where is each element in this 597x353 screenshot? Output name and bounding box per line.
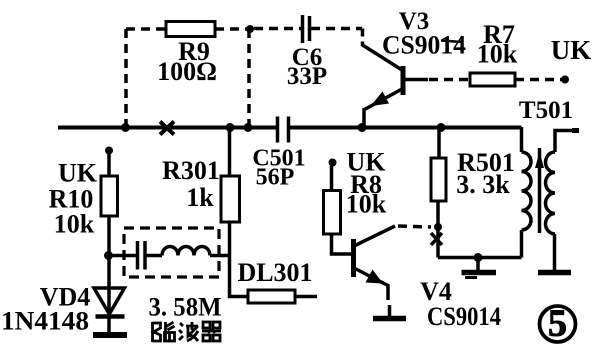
V3 base lead (404, 78, 428, 82)
transformer T501 (522, 127, 580, 270)
T501 secondary bottom lead (553, 234, 557, 270)
stray scan mark over 9014 (441, 41, 462, 43)
wire bus to R501 (437, 127, 441, 158)
wire dashed base V3 to R7 (429, 78, 470, 82)
svg-text:CS9014: CS9014 (382, 31, 466, 60)
transistor V4 (354, 226, 396, 300)
T501 secondary winding (546, 152, 556, 234)
svg-text:1N4148: 1N4148 (1, 307, 89, 336)
resistor R501 (431, 158, 446, 201)
svg-text:3. 3k: 3. 3k (456, 170, 510, 199)
delay line DL301 (248, 290, 295, 303)
resistor R301 (221, 176, 240, 222)
ground under V4 emitter (373, 305, 406, 319)
svg-text:5: 5 (548, 303, 567, 345)
ground under VD4 (93, 332, 127, 338)
svg-text:3. 58M: 3. 58M (149, 293, 222, 322)
V4 collector lead (354, 226, 395, 246)
node junction dot bus/R9-right (244, 123, 253, 132)
V3 collector lead (363, 45, 403, 70)
V4 base bar (351, 239, 356, 277)
resistor R8 (324, 191, 341, 235)
T501 core with tuning arrow (538, 148, 542, 233)
svg-text:33P: 33P (287, 63, 327, 90)
diode VD4 (94, 288, 125, 333)
svg-text:UK: UK (551, 35, 592, 65)
wire dashed V4 collector to R501 (398, 226, 431, 227)
T501 primary top lead (520, 127, 524, 152)
wire dashed R9 top right (215, 27, 250, 31)
wire dashed R7 to UK (515, 78, 562, 82)
inductor notch 3.58M (162, 247, 210, 256)
wire cap to inductor (147, 254, 163, 258)
svg-text:10k: 10k (477, 40, 518, 69)
node junction dot bus/R501 (437, 123, 446, 132)
wire dashed C6 to V3 collector (311, 27, 362, 31)
V3 base bar (401, 66, 406, 95)
wire R8 to V4 base (332, 234, 352, 254)
T501 primary winding (522, 152, 532, 230)
wire bottom horizontal to transformer (438, 256, 522, 260)
wire main bus left segment (58, 126, 276, 130)
svg-text:1k: 1k (186, 183, 214, 212)
wire DL301 output stub (295, 295, 317, 299)
svg-text:UK: UK (58, 159, 98, 188)
svg-text:CS9014: CS9014 (427, 302, 501, 331)
T501 secondary top lead (555, 131, 578, 153)
wire UK stub to R10 (107, 153, 111, 176)
capacitor C501 (278, 117, 289, 143)
char 陷 (153, 322, 175, 342)
T501 primary bottom lead (520, 230, 524, 258)
wire R301 down and elbow to DL301 (230, 222, 249, 297)
ground under secondary (538, 270, 571, 276)
node UK supply terminal dot (R8) (329, 159, 337, 167)
V3 emitter lead with arrow (365, 89, 403, 110)
capacitor notch (138, 241, 146, 270)
label Chinese 陷波器 (notch filter) drawn strokes (153, 322, 222, 342)
node junction dot bus/R9-left (121, 123, 130, 132)
svg-text:R301: R301 (162, 156, 220, 185)
svg-text:100Ω: 100Ω (157, 57, 217, 86)
wire R501 down (436, 201, 440, 258)
wire dashed R9 loop left vertical (124, 29, 128, 125)
wire notch filter input (110, 254, 136, 258)
transistor V3 (363, 45, 429, 129)
resistor R9 (166, 22, 215, 37)
ground at bottom tap (462, 258, 497, 278)
node junction dot bus/R301 (226, 123, 235, 132)
wire bus to R301 (228, 127, 232, 176)
figure number circled 5 (540, 303, 576, 345)
V4 emitter vertical wire (386, 284, 390, 300)
char 波 (179, 322, 198, 341)
wire R10 to VD4 (107, 216, 111, 315)
node UK supply terminal dot (left) (105, 147, 113, 155)
node junction dot ground tap (474, 253, 483, 262)
V3 emitter vertical wire (362, 108, 366, 129)
char 器 (202, 322, 221, 341)
wire dashed to C6 (254, 27, 301, 31)
break mark X below R501 (431, 233, 442, 245)
resistor R7 (470, 73, 515, 86)
wire main bus right segment (290, 126, 522, 130)
capacitor C6 (303, 15, 310, 43)
wire UK stub to R8 (330, 166, 334, 190)
node junction dot bus/V3-emitter (358, 123, 367, 132)
wire dashed R9 top left (126, 27, 166, 31)
break mark X on bus (160, 122, 174, 135)
svg-text:DL301: DL301 (237, 258, 312, 287)
svg-text:10k: 10k (54, 210, 95, 239)
V4 emitter lead with arrow (354, 268, 388, 286)
resistor R10 (101, 176, 118, 216)
svg-text:56P: 56P (256, 165, 295, 191)
wire dashed R9 loop right vertical (247, 29, 251, 125)
node junction dot R10/notch (104, 251, 113, 260)
notch filter dashed box (124, 228, 219, 277)
svg-text:T501: T501 (519, 97, 573, 124)
wire inductor to R301 column (210, 254, 230, 258)
node dot R9/C6 corner (246, 25, 254, 33)
svg-text:10k: 10k (346, 190, 387, 219)
node junction dot collector/R501 (434, 223, 442, 231)
node UK output terminal dot (561, 76, 569, 84)
wire corner down to V3 (361, 29, 365, 47)
